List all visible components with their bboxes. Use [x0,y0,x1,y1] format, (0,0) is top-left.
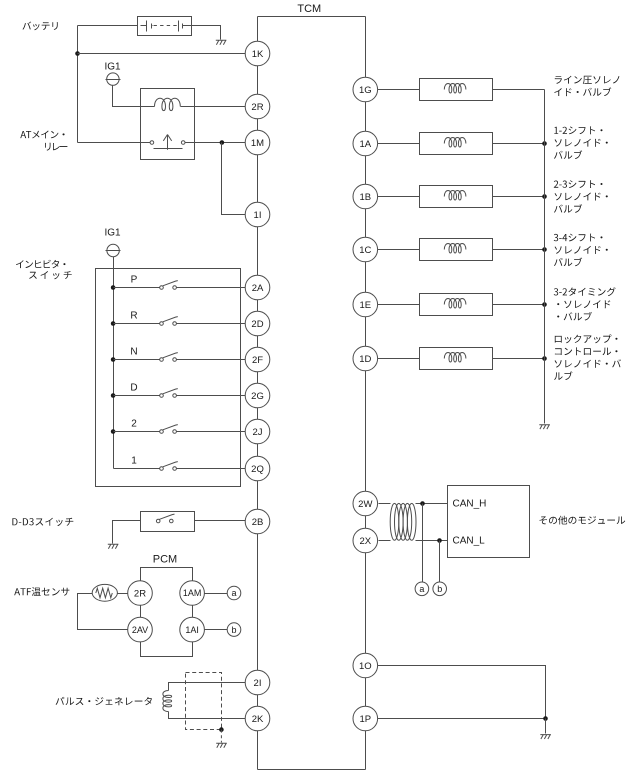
svg-text:N: N [130,347,137,358]
wire relay coil to pin 2R [181,106,258,108]
wire rail to battery box [78,25,138,27]
TCM pin 2J [245,419,270,444]
svg-text:1O: 1O [359,661,372,672]
ground (solenoid bus) [539,425,550,429]
AT main relay label [20,131,67,151]
wire CAN_H to module [416,503,448,505]
inhibitor switch position P (to pin 2A) [111,275,258,290]
1-2 shift solenoid valve label [554,126,608,159]
wire coil to pin 2I [169,683,258,691]
ground (D-D3) [108,544,119,548]
solenoid valve (2-3 shift) [366,186,545,208]
wire bottom tie between buses [258,769,366,771]
TCM pin 1E [353,292,378,317]
junction node 1M branch [220,140,225,145]
junction node rail-1K [75,51,80,56]
svg-text:IG1: IG1 [104,61,121,72]
wire coil to pin 2K [169,712,258,719]
TCM pin 1G [353,77,378,102]
svg-text:1: 1 [131,456,137,467]
terminal a (PCM) [227,586,241,600]
PCM pin 2R [128,581,153,606]
svg-text:2F: 2F [252,355,263,366]
wire PCM 2R to 2AV [140,606,142,618]
TCM connector bracket [258,16,366,18]
TCM pin 1I [245,202,270,227]
D-D3 switch label [12,518,73,526]
CAN_H label [453,499,487,510]
TCM pin 2K [245,706,270,731]
inhibitor switch position N (to pin 2F) [111,347,258,362]
junction node solenoid bus row 4 [542,247,547,252]
svg-text:a: a [419,584,424,594]
PCM pin 2AV [128,617,153,642]
wire sensor to PCM 2R [118,593,128,595]
junction node solenoid bus row 3 [542,194,547,199]
svg-text:1P: 1P [359,714,371,725]
junction node solenoid bus row 6 [542,356,547,361]
junction node CAN_L [437,538,442,543]
twisted pair (CAN bus) [390,503,416,540]
svg-text:2R: 2R [134,588,146,599]
svg-text:R: R [130,311,137,322]
wire CAN_H to terminal a [422,504,424,583]
IG1 label (relay) [104,61,121,72]
terminal b (PCM) [227,623,241,637]
svg-text:1G: 1G [359,85,372,96]
other modules label [540,516,626,525]
wire battery to ground [192,26,221,40]
wire drop to ground [545,719,547,734]
PCM bracket top [141,568,193,581]
svg-text:P: P [131,275,138,286]
battery box [138,17,192,36]
wire D-D3 switch to pin 2B [195,520,258,522]
pulse generator coil [163,691,172,712]
IG1 terminal symbol (inhibitor) [106,244,121,256]
inhibitor switch position 1 (to pin 2Q) [114,456,258,471]
TCM pin 2G [245,383,270,408]
PCM pin 1AM [180,581,205,606]
wire PCM 1AM to terminal a [205,593,228,595]
wire CAN_L to terminal b [439,541,441,583]
svg-text:1I: 1I [254,210,262,221]
TCM pin 2A [245,275,270,300]
svg-text:PCM: PCM [153,554,177,566]
wire right TCM bus [365,17,367,770]
ground (battery) [216,40,227,44]
junction node solenoid bus row 2 [542,141,547,146]
wire PCM 1AM to 1AI [192,606,194,618]
svg-text:1AI: 1AI [185,625,199,635]
svg-text:1A: 1A [359,139,371,150]
svg-text:CAN_H: CAN_H [453,499,487,510]
svg-text:2J: 2J [252,427,262,438]
inhibitor switch label [16,260,72,280]
line pressure solenoid valve label [554,76,619,96]
svg-text:CAN_L: CAN_L [453,536,486,547]
TCM pin 1O [353,653,378,678]
wire ground to D-D3 switch [113,521,141,544]
svg-text:2I: 2I [254,678,262,689]
CAN_L label [453,536,486,547]
solenoid valve (line pressure) [366,79,545,101]
relay plunger arrow [154,135,183,150]
AT main relay box [141,89,195,160]
solenoid valve (3-4 shift) [366,239,545,261]
PCM pin 1AI [180,617,205,642]
wire 2W to twisted pair [379,503,391,505]
other modules box [448,486,530,558]
wire IG1 to relay coil [113,86,155,107]
svg-text:1K: 1K [252,49,264,60]
wire left TCM bus [257,17,259,770]
TCM pin 1K [245,41,270,66]
svg-text:IG1: IG1 [104,228,121,239]
battery label [23,22,58,31]
svg-text:a: a [231,588,236,598]
solenoid valve (3-2 timing) [366,294,545,316]
inhibitor switch position D (to pin 2G) [111,383,258,398]
wire 1O to ground drop [378,666,546,719]
junction node CAN_H [420,501,425,506]
TCM pin 2X [353,528,378,553]
pulse generator label [56,697,152,705]
wire sensor to PCM 2AV [78,594,128,630]
TCM pin 1M [245,130,270,155]
inhibitor switch position 2 (to pin 2J) [111,419,258,434]
PCM label [153,554,177,566]
TCM pin 1P [353,706,378,731]
IG1 label (inhibitor) [104,228,121,239]
svg-text:2D: 2D [251,319,263,330]
svg-text:2B: 2B [252,517,264,528]
relay switch contacts [150,141,185,145]
svg-text:b: b [231,625,236,635]
svg-text:2G: 2G [251,391,264,402]
solenoid valve (lockup control) [366,348,545,370]
TCM pin 2I [245,670,270,695]
inhibitor switch position R (to pin 2D) [111,311,258,326]
TCM pin 2Q [245,456,270,481]
ground (1O/1P) [540,735,551,739]
ATF temp sensor label [14,587,69,596]
PCM bracket bottom [141,642,193,657]
wire CAN_L to module [416,540,448,542]
D-D3 switch box [141,512,195,532]
svg-text:2Q: 2Q [251,464,264,475]
TCM pin 2B [245,509,270,534]
junction node solenoid bus row 5 [542,302,547,307]
svg-text:TCM: TCM [297,3,321,15]
TCM pin 2W [353,491,378,516]
IG1 terminal symbol (relay) [106,73,121,85]
wire IG1 to inhibitor bus [113,257,115,288]
svg-text:2R: 2R [251,102,263,113]
svg-text:2A: 2A [252,283,264,294]
TCM pin 2D [245,311,270,336]
3-4 shift solenoid valve label [554,234,608,267]
terminal b (CAN) [433,582,447,596]
TCM pin 2F [245,347,270,372]
svg-text:2: 2 [131,419,137,430]
D-D3 switch contacts [156,514,174,523]
TCM pin 1D [353,346,378,371]
svg-text:1E: 1E [359,300,371,311]
TCM pin 1B [353,184,378,209]
pulse generator box [186,673,222,730]
wire 2X to twisted pair [379,540,391,542]
svg-text:1B: 1B [359,192,371,203]
inhibitor switch box [96,269,241,487]
wire branch to pin 1I [222,143,258,215]
TCM pin 1A [353,131,378,156]
svg-text:1C: 1C [359,245,371,256]
svg-text:b: b [437,584,442,594]
inhibitor internal bus wire [113,288,115,469]
TCM pin 2R [245,94,270,119]
battery symbol [141,21,192,32]
svg-text:2K: 2K [252,714,264,725]
terminal a (CAN) [415,582,429,596]
wire 1P to ground drop [378,718,546,720]
junction node 1O/1P ground [543,716,548,721]
wire rail to pin 1K [78,53,258,55]
svg-text:2W: 2W [358,499,372,510]
wire rail to relay switch [78,142,151,144]
TCM label [297,3,321,15]
ATF temp sensor [92,584,117,601]
solenoid valve (1-2 shift) [366,133,545,155]
wire solenoid ground bus [544,90,546,424]
wire PCM 1AI to terminal b [205,629,228,631]
TCM pin 1C [353,237,378,262]
relay coil [155,98,181,110]
ground (pulse generator) [216,743,227,747]
svg-text:2AV: 2AV [132,625,148,635]
svg-text:1D: 1D [359,354,371,365]
wire shield to ground [220,730,222,743]
wire left power rail [77,26,79,143]
2-3 shift solenoid valve label [554,180,608,213]
svg-text:D: D [130,383,137,394]
svg-text:1AM: 1AM [183,588,202,598]
3-2 timing solenoid valve label [554,287,616,320]
junction node pulse-gen shield [219,727,224,732]
svg-text:2X: 2X [359,536,371,547]
wire relay switch to pin 1M [185,142,258,144]
svg-text:1M: 1M [251,138,264,149]
lockup control solenoid valve label [554,334,621,380]
